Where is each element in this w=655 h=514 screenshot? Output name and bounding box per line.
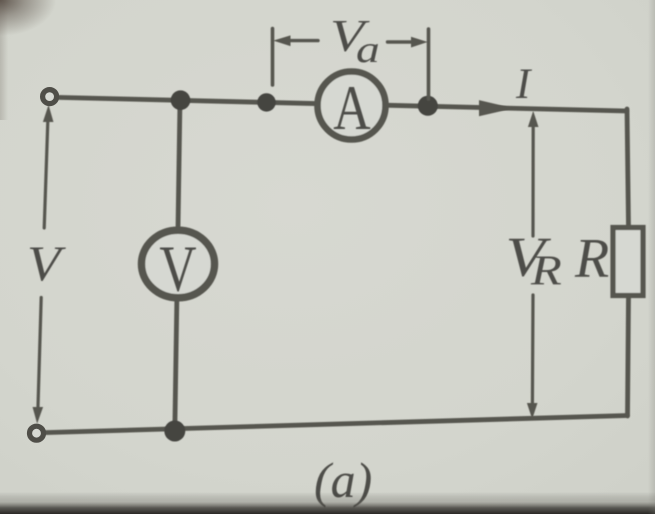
wire top (left terminal to top-right corner) <box>57 97 627 111</box>
wire right side bottom (resistor to bottom corner) <box>628 296 629 416</box>
current I arrowhead on top wire <box>480 101 512 116</box>
svg-text:A: A <box>333 72 370 143</box>
wire right side top (corner down to resistor) <box>627 109 629 227</box>
node J4 (bottom wire / voltmeter branch) <box>164 421 185 442</box>
VR measurement arrow down (tip on bottom wire) <box>531 295 535 405</box>
svg-text:R: R <box>574 228 609 290</box>
Va measurement left tick <box>271 29 275 86</box>
node J3 (right of ammeter) <box>418 96 438 116</box>
svg-text:I: I <box>515 61 532 108</box>
node J2 (left of ammeter) <box>257 93 275 111</box>
wire bottom (bottom-right corner to bottom-left terminal) <box>45 416 628 433</box>
node J1 (top wire / voltmeter branch) <box>171 90 191 110</box>
Va measurement right arrow <box>388 40 420 43</box>
source V arrow up (left side, upper) <box>44 116 48 228</box>
VR measurement arrow up (tip under top wire) <box>529 113 538 127</box>
photo edge shading (decorative) <box>0 492 655 514</box>
ammeter U1 circle <box>318 72 386 140</box>
svg-text:a: a <box>356 29 380 71</box>
svg-text:V: V <box>159 231 196 305</box>
resistor R <box>613 228 643 296</box>
voltmeter U2 circle <box>142 230 215 298</box>
wire voltmeter branch <box>175 100 180 431</box>
terminal T2 (bottom-left, open) <box>30 426 44 440</box>
svg-text:R: R <box>530 248 562 294</box>
source V arrow down (left side, lower) <box>38 298 41 414</box>
terminal T1 (top-left, open) <box>43 90 57 104</box>
Va measurement right tick <box>427 29 431 99</box>
Va measurement left arrow <box>281 39 318 42</box>
